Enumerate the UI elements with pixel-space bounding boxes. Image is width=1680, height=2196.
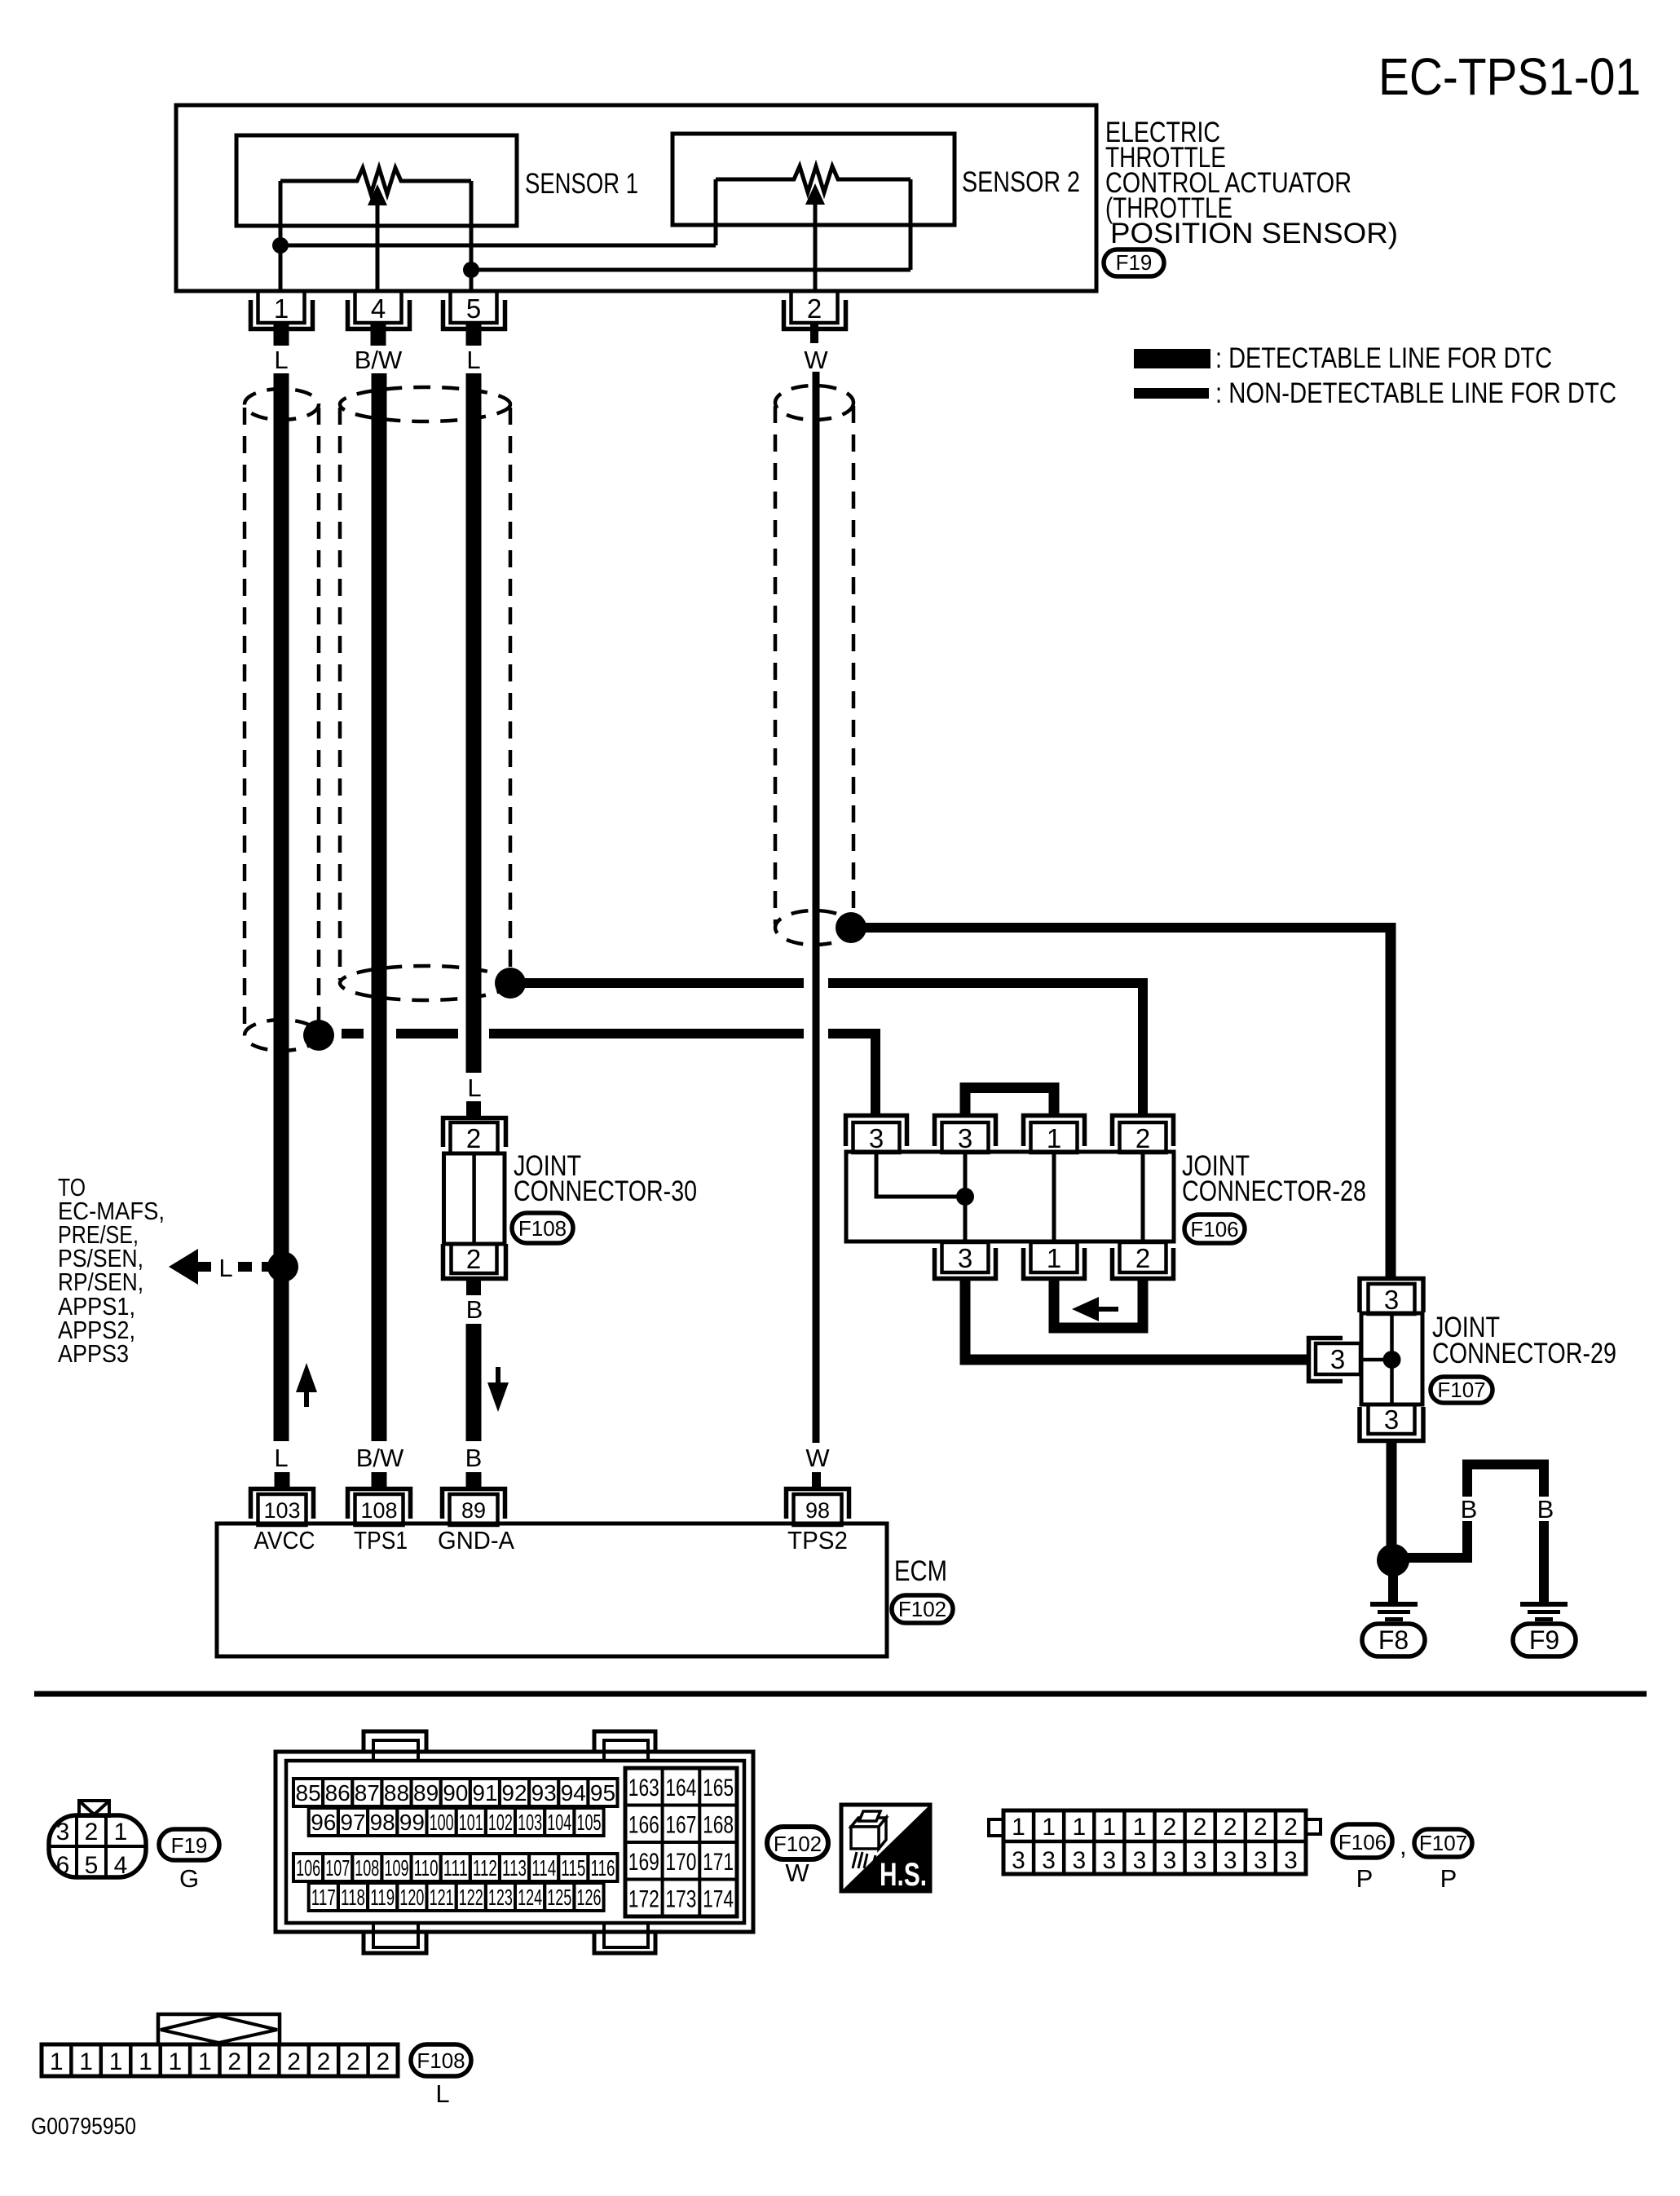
svg-text:168: 168 — [703, 1812, 734, 1839]
svg-text:B: B — [1461, 1495, 1478, 1524]
svg-text:1: 1 — [1042, 1814, 1056, 1841]
svg-text:H.S.: H.S. — [880, 1857, 927, 1893]
pin 2 (actuator) — [784, 291, 846, 343]
wire dot to F8 ground — [1388, 1573, 1398, 1603]
svg-text:166: 166 — [628, 1812, 659, 1839]
svg-text:F108: F108 — [417, 2048, 465, 2073]
svg-text:2: 2 — [1135, 1123, 1150, 1153]
wire link sensor1-left to sensor2-left — [280, 244, 716, 248]
connector view F108 pin row — [42, 2044, 398, 2076]
throttle actuator box F19 — [176, 105, 1096, 291]
connector view F102 right grid 163-174 — [625, 1768, 737, 1916]
svg-text:3: 3 — [1072, 1847, 1086, 1874]
joint connector-29 — [1309, 1279, 1617, 1441]
svg-text:1: 1 — [50, 2048, 64, 2075]
legend detectable bar — [1134, 349, 1210, 368]
wiper arrow sensor 1 — [368, 184, 387, 205]
svg-text:115: 115 — [561, 1855, 585, 1881]
pin 5 (actuator) — [443, 291, 505, 346]
svg-text:1: 1 — [79, 2048, 93, 2075]
svg-text:107: 107 — [325, 1855, 350, 1881]
svg-text:125: 125 — [547, 1885, 571, 1910]
svg-text:3: 3 — [1284, 1847, 1298, 1874]
sensor1 right lead — [470, 181, 474, 291]
svg-text:121: 121 — [430, 1885, 454, 1910]
svg-text:88: 88 — [384, 1780, 409, 1806]
wire shield drain C — [858, 923, 1396, 933]
arrow up on wire L — [296, 1363, 317, 1392]
connector view F102 pin row 85-95 — [293, 1779, 323, 1806]
svg-text:2: 2 — [466, 1123, 481, 1153]
svg-text:F19: F19 — [171, 1833, 208, 1858]
svg-text:164: 164 — [665, 1775, 696, 1801]
connector view F102 top tabs — [364, 1731, 426, 1752]
svg-text:95: 95 — [590, 1780, 615, 1806]
node shield dot cylinder3 — [836, 912, 866, 943]
svg-text:2: 2 — [1135, 1243, 1150, 1273]
svg-text:G: G — [179, 1864, 199, 1893]
arrow to EC-MAFS — [169, 1249, 198, 1285]
svg-text:F8: F8 — [1378, 1625, 1409, 1655]
svg-text:F107: F107 — [1419, 1831, 1467, 1855]
svg-text:171: 171 — [703, 1849, 734, 1876]
svg-text:2: 2 — [287, 2048, 301, 2075]
svg-text:L: L — [274, 346, 288, 374]
connector view F106/F107 body — [1003, 1810, 1306, 1874]
connector view F19 grid — [51, 1845, 144, 1848]
sensor2 left lead — [714, 179, 718, 245]
svg-text:86: 86 — [325, 1780, 351, 1806]
svg-text:87: 87 — [355, 1780, 380, 1806]
svg-text:6: 6 — [56, 1852, 70, 1879]
node shield dot cylinder1 — [303, 1020, 334, 1051]
pin 108 (ECM) — [348, 1472, 411, 1525]
svg-text:1: 1 — [1047, 1123, 1061, 1153]
ground symbol F9 — [1520, 1604, 1568, 1620]
shield cylinder 3 — [775, 386, 853, 945]
svg-text:B/W: B/W — [355, 346, 403, 374]
svg-text:EC-TPS1-01: EC-TPS1-01 — [1378, 47, 1641, 106]
svg-text:170: 170 — [665, 1849, 696, 1876]
wire shield drain A corner down to JC-28 pin3 — [871, 1029, 880, 1115]
svg-text:POSITION SENSOR): POSITION SENSOR) — [1110, 218, 1398, 249]
pin 4 (actuator) — [348, 291, 410, 346]
svg-text:165: 165 — [703, 1775, 734, 1801]
svg-text:TPS1: TPS1 — [354, 1526, 408, 1554]
svg-text:2: 2 — [1284, 1814, 1298, 1841]
svg-text:3: 3 — [1384, 1404, 1399, 1435]
svg-text:90: 90 — [443, 1780, 468, 1806]
svg-text:99: 99 — [399, 1810, 425, 1835]
svg-text:CONNECTOR-30: CONNECTOR-30 — [514, 1175, 697, 1207]
svg-text:1: 1 — [169, 2048, 183, 2075]
svg-text:122: 122 — [459, 1885, 483, 1910]
svg-text:F106: F106 — [1338, 1830, 1387, 1854]
pin 3 bottom (JC-28) — [942, 1242, 989, 1272]
connector view F108 key box — [158, 2014, 280, 2044]
svg-text:L: L — [274, 1444, 288, 1472]
svg-text:94: 94 — [561, 1780, 586, 1806]
connector oval F102 (view) — [767, 1827, 828, 1859]
connector oval F8 — [1362, 1624, 1425, 1656]
connector oval F106 — [1184, 1215, 1245, 1243]
svg-text:103: 103 — [263, 1498, 300, 1523]
svg-text:109: 109 — [385, 1855, 409, 1881]
connector view F106/F107 side tabs — [989, 1819, 1003, 1836]
svg-text:4: 4 — [114, 1852, 128, 1879]
svg-text:SENSOR 2: SENSOR 2 — [962, 166, 1080, 198]
pin 103 (ECM) — [251, 1472, 314, 1525]
svg-text:114: 114 — [531, 1855, 556, 1881]
svg-text:3: 3 — [958, 1243, 972, 1273]
svg-text:ECM: ECM — [894, 1555, 947, 1587]
svg-text:5: 5 — [466, 293, 481, 324]
arrow left inside U-link — [1092, 1307, 1118, 1312]
connector oval F9 — [1513, 1624, 1576, 1656]
wire shield drain C corner down to JC-29 — [1386, 923, 1396, 1278]
body JC-28 — [846, 1152, 1174, 1241]
svg-text:3: 3 — [1042, 1847, 1056, 1874]
svg-text:2: 2 — [466, 1244, 481, 1274]
wire dot right and up (B leg bridge) — [1406, 1521, 1467, 1558]
svg-text:108: 108 — [360, 1498, 397, 1523]
connector oval F102 — [892, 1595, 953, 1623]
svg-text:119: 119 — [370, 1885, 395, 1910]
svg-text:2: 2 — [1163, 1814, 1177, 1841]
svg-text:101: 101 — [459, 1810, 483, 1835]
svg-text:3: 3 — [1012, 1847, 1025, 1874]
svg-text:B: B — [466, 1295, 483, 1324]
svg-text:2: 2 — [346, 2048, 360, 2075]
svg-text:116: 116 — [591, 1855, 615, 1881]
wire W (TPS2) — [813, 372, 820, 1443]
wire U-link bottom pins 1-2 (JC-28) — [1054, 1279, 1143, 1328]
svg-text:F19: F19 — [1116, 250, 1153, 275]
svg-text:,: , — [1400, 1832, 1407, 1860]
sensor1 left lead — [279, 181, 283, 291]
svg-text:3: 3 — [1133, 1847, 1147, 1874]
svg-text:G00795950: G00795950 — [31, 2114, 136, 2140]
svg-text:100: 100 — [430, 1810, 454, 1835]
legend non-detectable bar — [1134, 388, 1209, 399]
resistor R2 (sensor 2) — [716, 166, 911, 192]
svg-text:3: 3 — [1330, 1344, 1345, 1374]
svg-text:163: 163 — [628, 1775, 659, 1801]
wire bridge top bar — [1467, 1465, 1544, 1497]
node internal dot JC-29 — [1383, 1351, 1401, 1369]
svg-text:B: B — [465, 1444, 483, 1472]
svg-text:108: 108 — [355, 1855, 379, 1881]
shield cylinder 2 — [340, 387, 510, 1000]
pin 2 bottom (JC-30) — [452, 1244, 497, 1273]
svg-text:W: W — [785, 1859, 809, 1887]
svg-text:L: L — [467, 1074, 481, 1102]
svg-text:2: 2 — [85, 1819, 99, 1845]
svg-text:3: 3 — [1224, 1847, 1237, 1874]
pin 2 bottom (JC-28) — [1120, 1242, 1166, 1272]
svg-text:2: 2 — [1254, 1814, 1268, 1841]
internal bus wires JC-28 — [963, 1153, 968, 1242]
svg-text:98: 98 — [370, 1810, 395, 1835]
pin 1 top (JC-28) — [1024, 1116, 1085, 1147]
svg-text:112: 112 — [473, 1855, 497, 1881]
connector view F19 key notch — [79, 1801, 109, 1816]
svg-text:97: 97 — [340, 1810, 365, 1835]
svg-text:L: L — [218, 1254, 232, 1282]
node ground junction dot — [1377, 1544, 1409, 1576]
sensor 2 box — [672, 134, 955, 225]
svg-text:110: 110 — [414, 1855, 439, 1881]
svg-text:102: 102 — [488, 1810, 513, 1835]
connector oval F19 (view) — [159, 1829, 219, 1860]
wire bridge top pins 3-1 (JC-28) — [965, 1088, 1054, 1116]
svg-text:5: 5 — [85, 1852, 99, 1879]
wire shield drain A — [342, 1029, 880, 1038]
svg-text:1: 1 — [1133, 1814, 1147, 1841]
svg-text:103: 103 — [518, 1810, 542, 1835]
wire shield drain B corner down to JC-28 pin2 — [1138, 978, 1148, 1115]
svg-text:F107: F107 — [1437, 1378, 1485, 1402]
svg-text:L: L — [466, 346, 480, 374]
wire JC-29 down to ground node — [1387, 1443, 1397, 1549]
connector oval F107 — [1431, 1377, 1493, 1403]
svg-text:96: 96 — [311, 1810, 336, 1835]
svg-text:89: 89 — [461, 1498, 486, 1523]
svg-text:3: 3 — [1384, 1285, 1399, 1315]
svg-text:117: 117 — [311, 1885, 336, 1910]
svg-text:169: 169 — [628, 1849, 659, 1876]
svg-text:3: 3 — [56, 1819, 70, 1845]
resistor R1 (sensor 1) — [280, 168, 471, 194]
connector view F106/F107 column lines — [1032, 1810, 1036, 1874]
svg-text:118: 118 — [341, 1885, 365, 1910]
svg-text:CONNECTOR-28: CONNECTOR-28 — [1182, 1175, 1366, 1207]
connector view F102 bottom tabs — [364, 1932, 426, 1953]
svg-text:1: 1 — [1072, 1814, 1086, 1841]
connector view F102 pin row 96-105 — [309, 1808, 338, 1836]
sensor 1 box — [236, 135, 517, 226]
wire B lower (GND-A) — [466, 1324, 482, 1441]
svg-text:1: 1 — [109, 2048, 123, 2075]
node shield dot cylinder2 — [495, 968, 526, 999]
svg-text:W: W — [804, 346, 828, 374]
svg-text:91: 91 — [472, 1780, 497, 1806]
wire right leg to F9 ground — [1539, 1521, 1549, 1603]
svg-text:W: W — [805, 1444, 830, 1472]
connector oval F107 (view) — [1414, 1829, 1472, 1857]
svg-text:4: 4 — [371, 293, 386, 324]
svg-text:173: 173 — [665, 1886, 696, 1913]
pin 98 (ECM) — [787, 1472, 849, 1525]
svg-text:P: P — [1440, 1864, 1457, 1893]
wire B/W (TPS1) — [372, 373, 387, 1441]
svg-text:3: 3 — [1102, 1847, 1116, 1874]
svg-text:1: 1 — [1102, 1814, 1116, 1841]
shield cylinder 1 — [245, 389, 319, 1051]
body JC-30 — [444, 1153, 505, 1244]
svg-text:123: 123 — [488, 1885, 513, 1910]
svg-text:B/W: B/W — [356, 1444, 404, 1472]
svg-text:L: L — [435, 2079, 449, 2108]
ground symbol F8 — [1370, 1604, 1418, 1620]
pin 3 top-a (JC-28) — [846, 1116, 907, 1147]
pin 3 left (JC-29) — [1309, 1338, 1343, 1382]
svg-text:: NON-DETECTABLE LINE FOR DTC: : NON-DETECTABLE LINE FOR DTC — [1215, 377, 1616, 409]
svg-text:3: 3 — [869, 1123, 884, 1153]
connector view F19 body — [49, 1815, 146, 1877]
svg-text:2: 2 — [807, 293, 822, 324]
pin 1 bottom (JC-28) — [1031, 1242, 1078, 1272]
ECM box — [217, 1524, 887, 1656]
connector view F102 pin row 117-126 — [309, 1883, 338, 1911]
svg-text:P: P — [1356, 1864, 1374, 1893]
svg-text:B: B — [1537, 1495, 1554, 1524]
svg-text:GND-A: GND-A — [438, 1526, 514, 1554]
svg-text:172: 172 — [628, 1886, 659, 1913]
svg-text:174: 174 — [703, 1886, 734, 1913]
svg-text:98: 98 — [805, 1498, 830, 1523]
sensor2 right lead — [909, 179, 913, 270]
svg-text:105: 105 — [577, 1810, 602, 1835]
svg-text:AVCC: AVCC — [254, 1526, 315, 1554]
connector oval F19 (actuator) — [1104, 249, 1164, 276]
node junction dot on wire L — [267, 1251, 298, 1282]
joint connector-28 — [846, 1088, 1367, 1360]
svg-text:F102: F102 — [774, 1832, 822, 1856]
node junction dot sensor1-right — [463, 262, 479, 278]
svg-text:: DETECTABLE LINE FOR DTC: : DETECTABLE LINE FOR DTC — [1215, 342, 1552, 374]
svg-text:3: 3 — [1163, 1847, 1177, 1874]
svg-text:92: 92 — [501, 1780, 527, 1806]
svg-text:F9: F9 — [1529, 1625, 1559, 1655]
label TO EC-MAFS block — [58, 1173, 165, 1368]
svg-text:104: 104 — [547, 1810, 571, 1835]
svg-text:2: 2 — [227, 2048, 241, 2075]
svg-text:106: 106 — [296, 1855, 320, 1881]
svg-text:2: 2 — [1224, 1814, 1237, 1841]
svg-text:CONNECTOR-29: CONNECTOR-29 — [1432, 1338, 1616, 1369]
connector oval F106 (view) — [1333, 1824, 1392, 1858]
svg-text:126: 126 — [577, 1885, 602, 1910]
pin 2 top (JC-28) — [1113, 1116, 1174, 1147]
svg-text:113: 113 — [502, 1855, 527, 1881]
wiper arrow sensor 2 — [805, 183, 825, 205]
svg-text:2: 2 — [1193, 1814, 1207, 1841]
logo H.S. printer icon — [851, 1811, 886, 1849]
svg-text:3: 3 — [958, 1123, 972, 1153]
svg-text:167: 167 — [665, 1812, 696, 1839]
arrow down on wire B — [496, 1367, 500, 1386]
logo H.S. box — [841, 1805, 930, 1891]
svg-text:TPS2: TPS2 — [787, 1526, 848, 1554]
pin 1 (actuator) — [251, 291, 313, 346]
svg-text:1: 1 — [274, 293, 289, 324]
svg-text:89: 89 — [413, 1780, 439, 1806]
wire JC-28 pin3 bottom to JC-29 — [965, 1279, 1308, 1360]
svg-text:SENSOR 1: SENSOR 1 — [525, 168, 638, 200]
svg-text:1: 1 — [198, 2048, 212, 2075]
pin 2 top (JC-30) — [466, 1101, 481, 1118]
svg-text:2: 2 — [258, 2048, 271, 2075]
connector oval F108 — [512, 1213, 573, 1243]
node internal dot JC-28 — [956, 1188, 974, 1206]
svg-text:F102: F102 — [898, 1597, 946, 1621]
svg-text:1: 1 — [114, 1819, 128, 1845]
svg-text:85: 85 — [296, 1780, 321, 1806]
pin 3 bottom (JC-29) — [1369, 1404, 1415, 1434]
wire dashed branch L — [238, 1262, 269, 1272]
node junction dot sensor1-left — [272, 237, 289, 254]
connector oval F108 (view) — [411, 2044, 471, 2076]
svg-text:3: 3 — [1254, 1847, 1268, 1874]
connector view F102 outer shell — [276, 1752, 753, 1932]
svg-text:APPS3: APPS3 — [58, 1339, 129, 1368]
svg-text:2: 2 — [317, 2048, 331, 2075]
svg-text:3: 3 — [1193, 1847, 1207, 1874]
svg-text:F108: F108 — [518, 1216, 567, 1241]
svg-text:1: 1 — [139, 2048, 152, 2075]
separator line — [34, 1691, 1647, 1697]
joint connector-30 — [443, 1074, 698, 1324]
svg-text:F106: F106 — [1190, 1217, 1238, 1241]
body JC-29 — [1361, 1313, 1422, 1404]
svg-text:111: 111 — [443, 1855, 468, 1881]
svg-text:93: 93 — [531, 1780, 557, 1806]
wire shield drain B — [518, 978, 1148, 988]
svg-text:124: 124 — [518, 1885, 542, 1910]
wire link sensor1-right to sensor2-right — [471, 268, 911, 272]
pin 3 top (JC-29) — [1360, 1279, 1423, 1313]
pin 89 (ECM) — [443, 1472, 505, 1525]
svg-text:1: 1 — [1012, 1814, 1025, 1841]
pin 3 top-b (JC-28) — [935, 1116, 996, 1147]
wire L (AVCC) — [274, 373, 289, 1441]
svg-text:120: 120 — [399, 1885, 424, 1910]
svg-text:1: 1 — [1047, 1243, 1061, 1273]
svg-text:2: 2 — [376, 2048, 390, 2075]
label ELECTRIC THROTTLE CONTROL ACTUATOR — [1105, 117, 1398, 249]
connector view F102 pin row 106-116 — [293, 1854, 323, 1881]
wire L upper (GND-A) — [466, 373, 482, 1073]
